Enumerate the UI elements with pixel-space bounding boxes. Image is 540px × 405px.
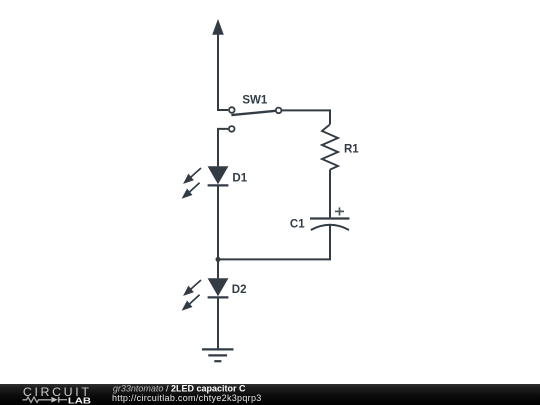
resistor R1 <box>322 124 359 169</box>
SW1 lever <box>231 111 275 115</box>
wire: supply arrow down to SW1 throw A <box>218 34 228 110</box>
capacitor C1 (polarized) <box>290 207 350 230</box>
svg-text:LAB: LAB <box>68 396 91 405</box>
switch SW1 <box>229 94 282 131</box>
svg-text:C1: C1 <box>290 218 305 230</box>
svg-text:D1: D1 <box>232 172 247 184</box>
C1 top plate <box>310 217 350 219</box>
LED D2 <box>183 278 246 309</box>
junction node <box>216 257 221 262</box>
wire: D1 cathode to junction node <box>217 186 219 260</box>
svg-text:SW1: SW1 <box>242 94 268 106</box>
wire: SW1 throw B to D1 anode <box>218 129 228 167</box>
footer black bar <box>0 384 540 405</box>
C1 plus sign <box>335 207 344 215</box>
LED D1 <box>183 166 247 197</box>
C1 bottom curved plate <box>311 225 349 230</box>
wire: D2 cathode to ground <box>217 298 219 350</box>
net arrow (supply) <box>212 19 224 35</box>
wire: R1 bottom to C1 top plate <box>329 170 331 218</box>
wire: SW1 common to R1 top <box>282 110 330 124</box>
CircuitLab logo: resistor-diode glyph row <box>23 397 68 403</box>
wire: C1 bottom to junction node <box>218 225 330 260</box>
SW1 throw terminal A (top-left circle) <box>229 107 235 113</box>
svg-text:http://circuitlab.com/chtye2k3: http://circuitlab.com/chtye2k3pqrp3 <box>112 393 262 403</box>
svg-text:R1: R1 <box>344 144 359 156</box>
SW1 common terminal (right circle) <box>276 108 282 114</box>
ground symbol <box>202 349 234 361</box>
SW1 throw terminal B (bottom-left circle) <box>229 126 235 132</box>
wire: junction to D2 anode <box>217 259 219 278</box>
svg-text:D2: D2 <box>232 284 247 296</box>
